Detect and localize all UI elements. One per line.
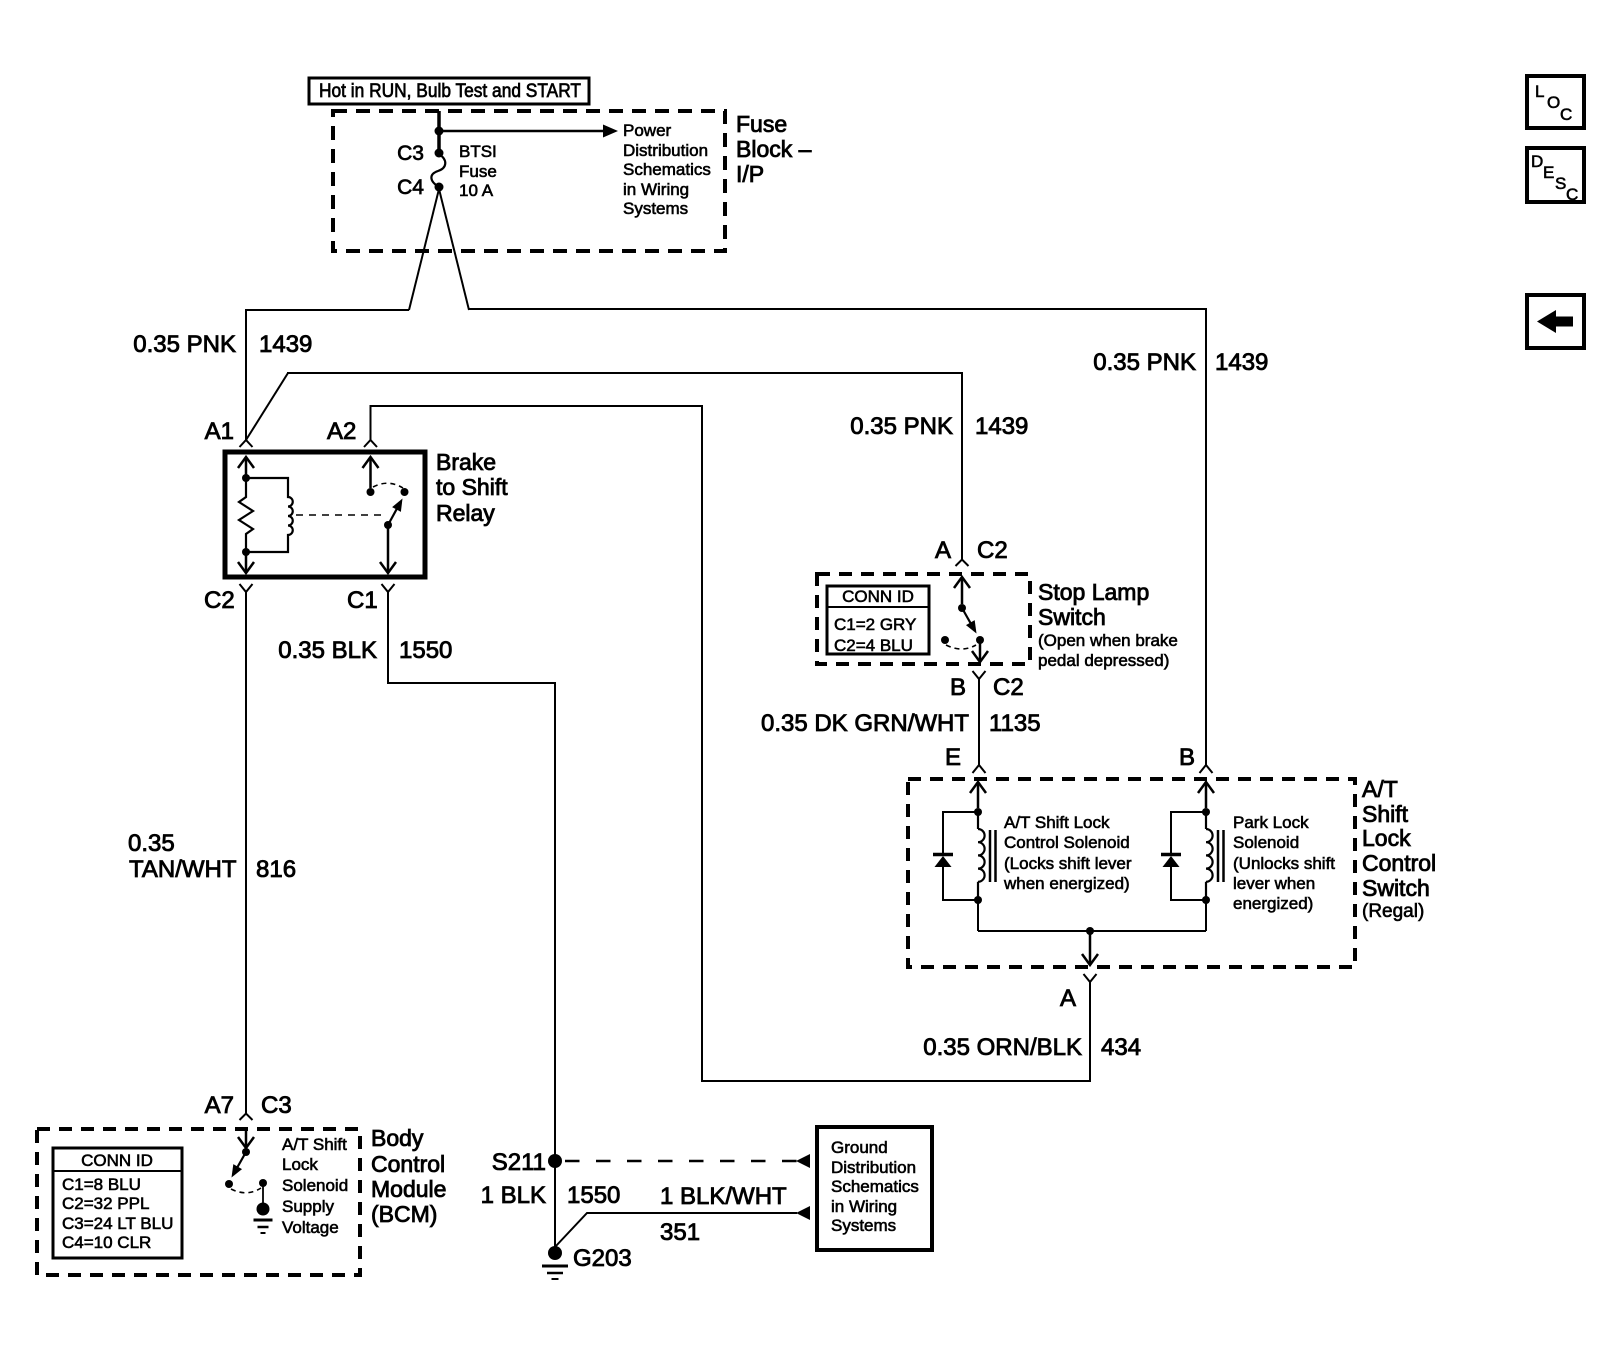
stop lamp pin arrow in	[954, 577, 970, 604]
relay coil pin arrow A1	[238, 457, 254, 478]
svg-text:Hot in RUN, Bulb Test and STAR: Hot in RUN, Bulb Test and START	[319, 81, 581, 102]
svg-text:Solenoid: Solenoid	[1233, 833, 1299, 852]
BCM travel dashed arc	[231, 1188, 261, 1193]
relay switch pin arrow C1	[380, 525, 396, 573]
svg-text:O: O	[1547, 93, 1560, 112]
BCM label	[371, 1125, 446, 1227]
svg-text:D: D	[1531, 152, 1543, 171]
svg-text:0.35 ORN/BLK: 0.35 ORN/BLK	[923, 1034, 1082, 1061]
BCM dashed box	[37, 1129, 360, 1275]
wire: right diagonal from fuse output	[439, 189, 469, 310]
svg-text:pedal depressed): pedal depressed)	[1038, 651, 1169, 670]
switch pin arrow out A	[1082, 931, 1098, 965]
svg-text:C2: C2	[204, 587, 235, 614]
value label 0.35 PNK 1439 (right)	[1093, 349, 1268, 376]
svg-text:Control: Control	[371, 1151, 445, 1177]
stop lamp open-position contact	[941, 636, 949, 644]
svg-text:CONN ID: CONN ID	[842, 587, 914, 606]
value label 0.35 PNK 1439 (middle)	[850, 413, 1028, 440]
Power Distribution note	[623, 121, 711, 218]
svg-text:Systems: Systems	[623, 199, 688, 218]
svg-text:A: A	[935, 537, 951, 564]
relay switch armature	[384, 496, 407, 529]
svg-text:Shift: Shift	[1362, 801, 1409, 827]
wire: A2 loop to A/T switch pin A (0.35 ORN/BLK 434)	[371, 406, 1091, 1081]
svg-text:1439: 1439	[259, 331, 312, 358]
svg-text:Module: Module	[371, 1176, 446, 1202]
pin C3	[397, 142, 443, 165]
node junction at fuse feed	[435, 127, 444, 136]
wire: solenoid commons joined	[978, 900, 1206, 931]
pin A connector	[1060, 974, 1097, 1012]
svg-text:Voltage: Voltage	[282, 1218, 339, 1237]
relay mechanical link dashed	[296, 514, 383, 516]
svg-text:C2=32 PPL: C2=32 PPL	[62, 1194, 149, 1213]
diode D2 clamp	[1161, 812, 1206, 900]
wire: dashed to ground distribution	[565, 1154, 810, 1168]
svg-text:energized): energized)	[1233, 894, 1313, 913]
svg-text:S211: S211	[492, 1149, 546, 1176]
svg-text:E: E	[945, 744, 961, 771]
svg-text:E: E	[1543, 163, 1554, 182]
solenoid L2 coil: Park Lock Solenoid	[1206, 812, 1213, 900]
value label 1 BLK/WHT 351	[660, 1183, 787, 1246]
stop lamp CONN ID table	[827, 586, 929, 655]
svg-text:in Wiring: in Wiring	[623, 180, 689, 199]
solenoid L1 core bars	[990, 830, 996, 882]
svg-text:10 A: 10 A	[459, 181, 494, 200]
svg-text:Block –: Block –	[736, 136, 812, 162]
svg-text:G203: G203	[573, 1245, 632, 1272]
svg-text:L: L	[1535, 82, 1544, 101]
svg-text:Switch: Switch	[1038, 604, 1106, 630]
wire arrow to Power Distribution Schematics	[439, 125, 618, 138]
svg-text:Systems: Systems	[831, 1216, 896, 1235]
relay coil winding	[246, 478, 293, 552]
svg-text:C: C	[1560, 105, 1572, 124]
solenoid L2 note	[1233, 813, 1335, 913]
svg-text:C3=24 LT BLU: C3=24 LT BLU	[62, 1214, 173, 1233]
svg-text:Control: Control	[1362, 850, 1436, 876]
ground G203	[542, 1245, 632, 1279]
svg-text:A1: A1	[205, 418, 234, 445]
svg-text:I/P: I/P	[736, 161, 764, 187]
svg-text:BTSI: BTSI	[459, 142, 497, 161]
svg-text:B: B	[1179, 744, 1195, 771]
stop lamp contact bottom	[976, 636, 984, 644]
wire: feed from hot box into fuse block	[437, 111, 441, 153]
svg-text:C2=4 BLU: C2=4 BLU	[834, 636, 913, 655]
svg-text:1439: 1439	[975, 413, 1028, 440]
BCM switch blade	[227, 1152, 246, 1180]
svg-text:Park Lock: Park Lock	[1233, 813, 1309, 832]
svg-text:Fuse: Fuse	[459, 162, 497, 181]
svg-text:0.35 DK GRN/WHT: 0.35 DK GRN/WHT	[761, 710, 969, 737]
relay label	[436, 449, 508, 526]
svg-text:434: 434	[1101, 1034, 1141, 1061]
value label 0.35 TAN/WHT 816	[128, 830, 296, 883]
fuse block dashed box	[333, 111, 725, 251]
wire: 1 BLK/WHT 351 to ground distribution	[555, 1206, 810, 1247]
svg-text:C1=8 BLU: C1=8 BLU	[62, 1175, 141, 1194]
stop lamp pin arrow out	[972, 640, 988, 662]
svg-text:Brake: Brake	[436, 449, 496, 475]
svg-text:C3: C3	[397, 142, 424, 165]
diode D1 clamp	[933, 812, 978, 900]
wire: C1 to S211 (0.35 BLK 1550)	[388, 592, 555, 1248]
svg-text:to Shift: to Shift	[436, 474, 508, 500]
solenoid L2 node bottom	[1202, 896, 1210, 904]
A/T shift lock control switch label	[1362, 776, 1436, 922]
relay switch fixed contact right	[401, 488, 409, 496]
svg-text:CONN ID: CONN ID	[81, 1151, 153, 1170]
BCM CONN ID table	[53, 1148, 182, 1258]
svg-text:351: 351	[660, 1219, 700, 1246]
svg-text:0.35 PNK: 0.35 PNK	[1093, 349, 1196, 376]
node S211	[492, 1149, 562, 1176]
pin A7 / C3 connector (BCM)	[205, 1092, 292, 1120]
pin C4	[397, 176, 443, 199]
relay node bottom	[242, 548, 250, 556]
svg-text:C2: C2	[977, 537, 1008, 564]
svg-text:in Wiring: in Wiring	[831, 1197, 897, 1216]
solenoid L2 pin arrow B	[1198, 782, 1214, 808]
svg-text:1550: 1550	[567, 1182, 620, 1209]
svg-text:1 BLK: 1 BLK	[481, 1182, 546, 1209]
value label 0.35 DK GRN/WHT 1135	[761, 710, 1041, 737]
BCM contact bottom	[225, 1180, 233, 1188]
BCM pin note	[282, 1135, 348, 1237]
solenoid L1 node top	[974, 808, 982, 816]
svg-text:A/T Shift: A/T Shift	[282, 1135, 347, 1154]
relay K: Brake to Shift Relay box	[225, 452, 425, 577]
svg-text:Lock: Lock	[282, 1155, 318, 1174]
solenoid L1 note	[1003, 813, 1132, 893]
svg-text:C2: C2	[993, 674, 1024, 701]
stop lamp travel dashed arc	[946, 645, 976, 649]
LOC icon box	[1527, 76, 1584, 128]
stop lamp armature blade	[962, 608, 981, 636]
svg-text:Fuse: Fuse	[736, 111, 787, 137]
svg-text:Relay: Relay	[436, 500, 495, 526]
relay coil pin arrow C2	[238, 552, 254, 573]
value label 0.35 ORN/BLK 434	[923, 1034, 1141, 1061]
wire: horizontal feed to stop lamp switch	[287, 373, 962, 559]
svg-text:Schematics: Schematics	[623, 160, 711, 179]
pin C1 connector	[347, 584, 395, 614]
svg-text:Schematics: Schematics	[831, 1177, 919, 1196]
svg-text:C1=2 GRY: C1=2 GRY	[834, 615, 916, 634]
svg-text:C1: C1	[347, 587, 378, 614]
svg-text:A7: A7	[205, 1092, 234, 1119]
BCM contact right	[259, 1179, 267, 1187]
pin A1 connector	[205, 418, 253, 447]
svg-text:C: C	[1566, 185, 1578, 204]
pin B connector	[1179, 744, 1213, 773]
pin A2 connector	[327, 418, 377, 447]
svg-text:1550: 1550	[399, 637, 452, 664]
svg-text:816: 816	[256, 856, 296, 883]
svg-text:Control Solenoid: Control Solenoid	[1004, 833, 1130, 852]
svg-text:C3: C3	[261, 1092, 292, 1119]
wire: stop lamp B to A/T switch E (0.35 DK GRN/WHT 1135)	[978, 679, 980, 765]
svg-text:Distribution: Distribution	[623, 141, 708, 160]
svg-text:(Unlocks shift: (Unlocks shift	[1233, 854, 1335, 873]
svg-text:Stop Lamp: Stop Lamp	[1038, 579, 1149, 605]
svg-text:0.35: 0.35	[128, 830, 175, 857]
node junction at common	[1086, 927, 1094, 935]
svg-text:(BCM): (BCM)	[371, 1201, 437, 1227]
wire: left diagonal from fuse output	[409, 189, 439, 310]
relay switch pin arrow A2	[363, 457, 379, 488]
svg-text:A2: A2	[327, 418, 356, 445]
svg-text:0.35 PNK: 0.35 PNK	[850, 413, 953, 440]
value label 0.35 BLK 1550	[278, 637, 452, 664]
svg-text:Lock: Lock	[1362, 825, 1411, 851]
svg-text:S: S	[1555, 174, 1566, 193]
solenoid L1 node bottom	[974, 896, 982, 904]
svg-text:Distribution: Distribution	[831, 1158, 916, 1177]
svg-text:lever when: lever when	[1233, 874, 1315, 893]
svg-text:A/T Shift Lock: A/T Shift Lock	[1004, 813, 1110, 832]
label box: Hot in RUN, Bulb Test and START	[309, 78, 589, 104]
wire: C2 to BCM A7 (0.35 TAN/WHT 816)	[245, 592, 247, 1113]
stop lamp switch dashed box	[817, 574, 1030, 664]
relay switch travel dashed arc	[373, 483, 403, 488]
solenoid L2 node top	[1202, 808, 1210, 816]
solenoid L2 core bars	[1218, 830, 1224, 882]
solenoid L1 coil: A/T Shift Lock Control Solenoid	[978, 812, 985, 900]
ground distribution reference box	[817, 1127, 932, 1250]
pin C2 connector	[204, 584, 253, 614]
back arrow icon box	[1527, 295, 1584, 348]
A/T shift lock control switch dashed box	[908, 779, 1355, 967]
solenoid L1 pin arrow E	[970, 782, 986, 808]
svg-text:Body: Body	[371, 1125, 424, 1151]
svg-text:Ground: Ground	[831, 1138, 888, 1157]
svg-text:1439: 1439	[1215, 349, 1268, 376]
pin E connector	[945, 744, 986, 773]
stop lamp switch label	[1038, 579, 1178, 670]
fuse block label	[736, 111, 812, 187]
value label 1 BLK 1550	[481, 1182, 621, 1209]
fuse F: BTSI Fuse 10 A	[431, 154, 445, 187]
svg-text:Power: Power	[623, 121, 672, 140]
svg-text:(Locks shift lever: (Locks shift lever	[1004, 854, 1132, 873]
svg-text:A/T: A/T	[1362, 776, 1398, 802]
svg-text:1135: 1135	[989, 710, 1041, 737]
wire: horizontal to right branch (0.35 PNK 1439)	[469, 309, 1206, 765]
BCM pin arrow in	[238, 1129, 254, 1148]
svg-text:A: A	[1060, 985, 1076, 1012]
BCM internal ground	[254, 1203, 273, 1234]
svg-text:when energized): when energized)	[1003, 874, 1130, 893]
svg-text:(Regal): (Regal)	[1362, 901, 1424, 922]
svg-text:Switch: Switch	[1362, 875, 1430, 901]
relay node top	[242, 474, 250, 482]
pin A / C2 connector (stop lamp top)	[935, 537, 1008, 566]
svg-text:TAN/WHT: TAN/WHT	[129, 856, 237, 883]
svg-text:Supply: Supply	[282, 1197, 334, 1216]
svg-text:C4=10 CLR: C4=10 CLR	[62, 1233, 151, 1252]
svg-text:B: B	[950, 674, 966, 701]
pin B / C2 connector (stop lamp bottom)	[950, 671, 1024, 701]
DESC icon box	[1527, 148, 1584, 204]
svg-text:0.35 BLK: 0.35 BLK	[278, 637, 377, 664]
svg-text:1 BLK/WHT: 1 BLK/WHT	[660, 1183, 787, 1210]
svg-text:C4: C4	[397, 176, 424, 199]
svg-text:Solenoid: Solenoid	[282, 1176, 348, 1195]
relay resistor	[239, 478, 253, 552]
value label 0.35 PNK 1439 (left)	[133, 331, 312, 358]
relay switch fixed contact left	[367, 488, 375, 496]
svg-text:(Open when brake: (Open when brake	[1038, 631, 1178, 650]
BCM contact top	[242, 1148, 250, 1156]
wire: horizontal to left branch (0.35 PNK 1439)	[246, 310, 409, 440]
BCM internal ground stem	[262, 1183, 264, 1204]
stop lamp contact top	[958, 604, 966, 612]
svg-text:0.35 PNK: 0.35 PNK	[133, 331, 236, 358]
wire: diagonal branch from A1 to stop lamp feed	[246, 373, 288, 440]
